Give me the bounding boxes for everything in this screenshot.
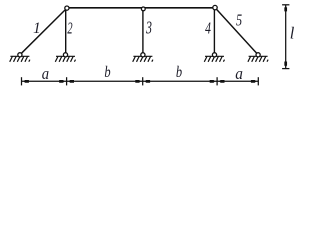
label 4 bbox=[205, 19, 211, 38]
svg-text:4: 4 bbox=[205, 19, 211, 38]
svg-text:1: 1 bbox=[33, 20, 41, 37]
label a (left span) bbox=[42, 65, 49, 83]
label l (height) bbox=[290, 24, 295, 43]
dimension ticks bbox=[22, 77, 259, 85]
label b (third span) bbox=[176, 64, 182, 82]
svg-text:a: a bbox=[42, 65, 49, 83]
hinge at mid beam bbox=[141, 7, 145, 11]
svg-text:2: 2 bbox=[67, 20, 72, 38]
support D (base of member 4) bbox=[204, 56, 224, 62]
member 3 (vertical link) bbox=[142, 9, 144, 55]
member 5 (diagonal link) bbox=[215, 8, 258, 55]
vertical dimension line (right, height l) bbox=[285, 5, 287, 69]
label 1 bbox=[33, 20, 41, 37]
hinge at right beam end bbox=[213, 5, 217, 9]
svg-text:5: 5 bbox=[236, 12, 242, 30]
dimension arrowheads (bottom) bbox=[24, 80, 257, 83]
beam top chord bbox=[67, 7, 215, 9]
svg-text:l: l bbox=[290, 24, 295, 43]
member 4 (vertical link) bbox=[213, 8, 215, 55]
support E (base of member 5) bbox=[248, 56, 268, 62]
support C (base of member 3) bbox=[133, 56, 153, 62]
svg-text:b: b bbox=[176, 64, 182, 82]
member 2 (vertical link) bbox=[65, 8, 67, 55]
label b (second span) bbox=[104, 64, 110, 82]
label 5 bbox=[236, 12, 242, 30]
member 1 (diagonal link) bbox=[20, 8, 67, 55]
svg-text:b: b bbox=[104, 64, 110, 82]
svg-text:a: a bbox=[235, 65, 243, 83]
dimension base line (bottom) bbox=[22, 80, 259, 82]
label 3 bbox=[145, 19, 152, 38]
label a (right span) bbox=[235, 65, 243, 83]
support B (base of member 2) bbox=[55, 56, 75, 62]
support A (base of member 1) bbox=[10, 56, 30, 62]
svg-text:3: 3 bbox=[145, 19, 152, 38]
label 2 bbox=[67, 20, 72, 38]
hinge at left beam end bbox=[65, 6, 69, 10]
